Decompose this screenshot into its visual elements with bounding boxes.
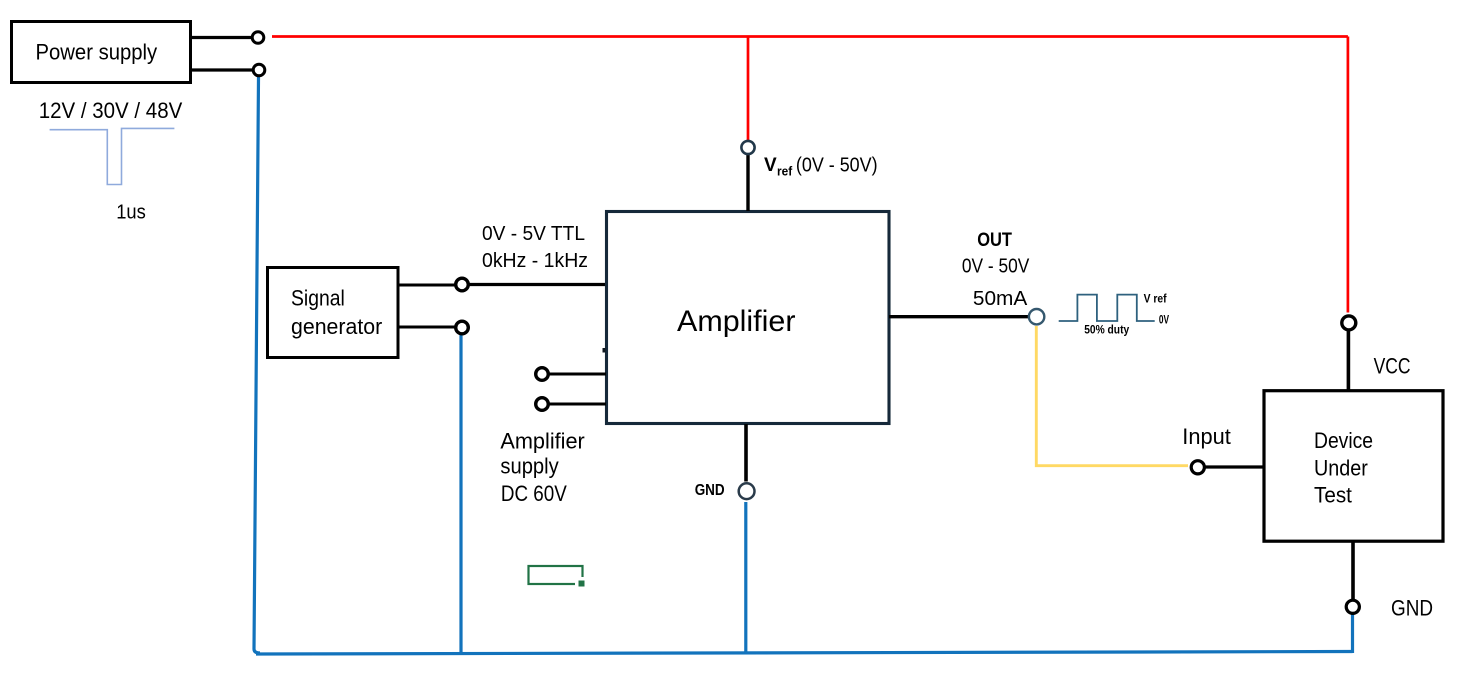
terminal: amplifier Vref <box>746 154 749 211</box>
svg-text:supply: supply <box>500 454 558 479</box>
svg-text:GND: GND <box>1391 596 1433 621</box>
wire: blue GND bus from power supply down left side <box>254 77 260 653</box>
terminal: DUT GND <box>1351 541 1355 600</box>
wire: TTL signal wire to amplifier input <box>469 283 606 286</box>
terminal: power supply - <box>253 64 265 76</box>
svg-text:(0V - 50V): (0V - 50V) <box>796 155 878 177</box>
artifact tick at amplifier left edge <box>603 348 606 353</box>
svg-text:1us: 1us <box>116 202 146 224</box>
box: signal generator <box>268 268 399 358</box>
terminal: amplifier OUT <box>1029 309 1044 324</box>
wire: power supply terminal stub 2 <box>191 68 253 71</box>
svg-text:V ref: V ref <box>1144 293 1167 305</box>
wire: blue from DUT GND terminal down to GND bus <box>1351 614 1354 654</box>
terminal: amplifier supply + <box>536 368 549 381</box>
svg-text:0V - 50V: 0V - 50V <box>962 256 1030 278</box>
terminal: DUT Input <box>1191 461 1204 474</box>
wire: red branch down to amplifier Vref terminal <box>747 37 750 141</box>
terminal: signal generator out 1 <box>456 278 469 291</box>
svg-text:V: V <box>764 155 777 176</box>
wire: amplifier OUT stub <box>889 315 1028 318</box>
svg-text:Signal: Signal <box>291 285 345 310</box>
wire: blue GND bus along bottom <box>256 652 1353 655</box>
box: device under test <box>1264 391 1443 542</box>
svg-text:Amplifier: Amplifier <box>500 428 584 453</box>
wire: red V+ bus from power supply across top <box>272 35 1348 38</box>
wire: blue from amplifier GND terminal down to GND bus <box>744 502 747 653</box>
svg-text:DC 60V: DC 60V <box>501 481 567 506</box>
wire: blue from signal generator lower terminal down to GND bus <box>459 334 462 653</box>
terminal: power supply + <box>252 32 264 44</box>
svg-text:0kHz - 1kHz: 0kHz - 1kHz <box>482 250 588 272</box>
svg-text:50% duty: 50% duty <box>1084 325 1130 337</box>
svg-text:ref: ref <box>777 164 793 178</box>
decoration: green spreadsheet cell cursor <box>529 566 583 584</box>
box: power supply <box>12 22 191 83</box>
svg-text:Power supply: Power supply <box>36 39 158 64</box>
waveform: power-supply 1us negative pulse <box>50 128 175 184</box>
svg-text:OUT: OUT <box>977 230 1012 251</box>
svg-text:Under: Under <box>1314 456 1368 481</box>
wire: power supply terminal stub 1 <box>191 36 252 39</box>
box: amplifier <box>607 212 890 424</box>
terminal: amplifier GND <box>744 424 748 482</box>
svg-text:Input: Input <box>1182 424 1231 449</box>
svg-text:generator: generator <box>291 314 382 339</box>
svg-text:0V - 5V TTL: 0V - 5V TTL <box>482 223 585 245</box>
waveform: OUT 50% duty square wave <box>1059 295 1155 321</box>
wire: signal generator terminal stub 1 <box>398 284 455 287</box>
svg-text:GND: GND <box>695 482 725 499</box>
wire: red branch down to DUT VCC terminal <box>1347 37 1350 313</box>
terminal: amplifier supply - <box>536 398 549 411</box>
svg-text:VCC: VCC <box>1374 354 1411 379</box>
svg-text:Amplifier: Amplifier <box>677 305 796 338</box>
svg-text:12V / 30V / 48V: 12V / 30V / 48V <box>39 98 183 123</box>
svg-text:Test: Test <box>1314 482 1352 507</box>
terminal: DUT VCC <box>1342 316 1356 330</box>
wire: yellow from amplifier OUT to DUT Input <box>1036 326 1188 466</box>
svg-text:Device: Device <box>1314 428 1373 453</box>
terminal: signal generator out 2 <box>456 321 469 334</box>
svg-text:0V: 0V <box>1159 315 1169 327</box>
svg-text:50mA: 50mA <box>973 288 1028 310</box>
wire: signal generator terminal stub 2 <box>398 326 455 329</box>
